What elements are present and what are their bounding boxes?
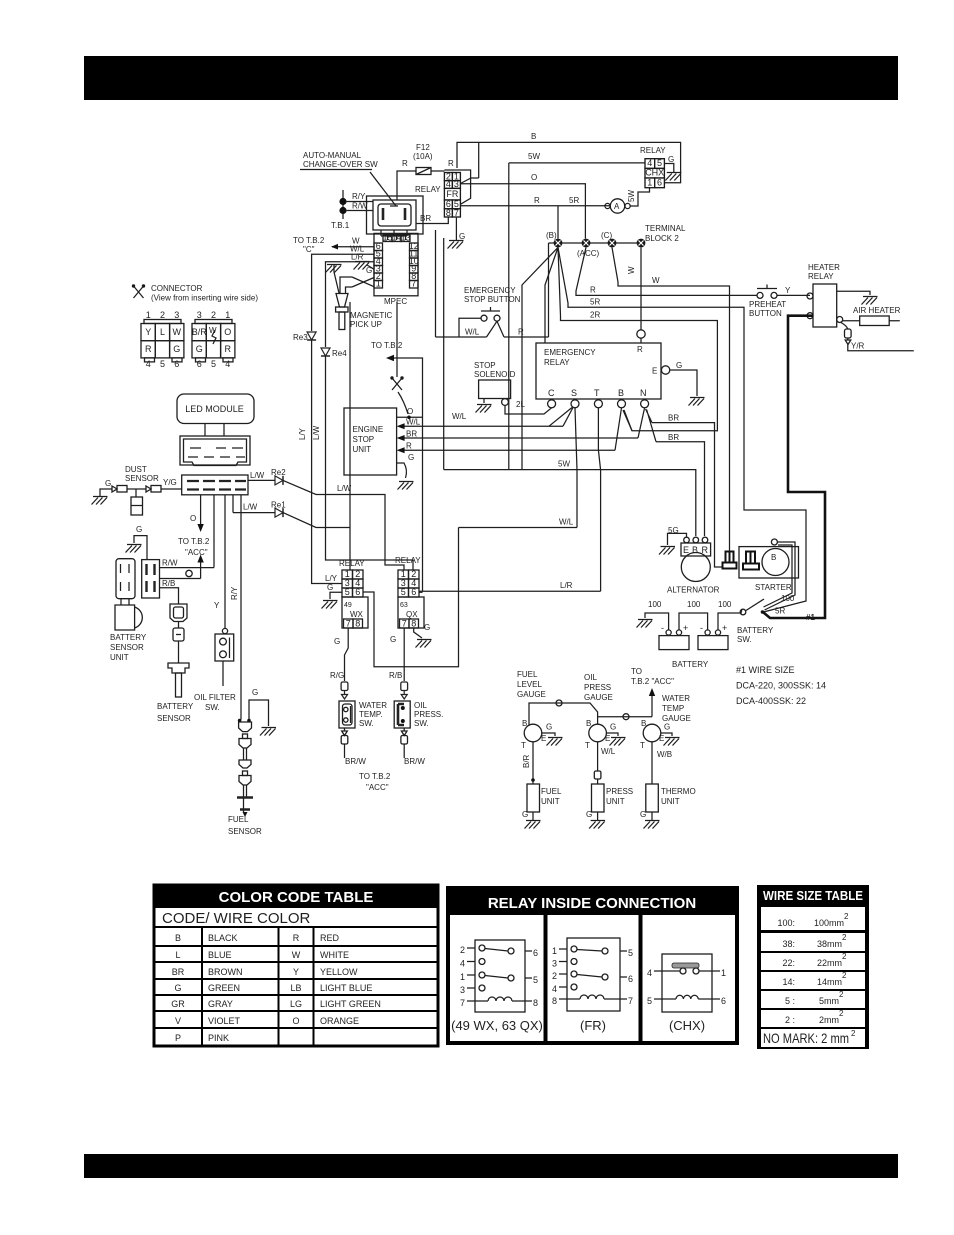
svg-text:5mm: 5mm [819,996,839,1006]
wire R/Y R/W to switch [347,202,373,211]
svg-text:-: - [661,623,664,633]
wire S fan-out [549,408,577,528]
svg-text:BATTERY: BATTERY [737,626,774,635]
svg-text:UNIT: UNIT [606,797,625,806]
wire from change-over switch down [436,230,444,470]
svg-text:Y: Y [214,601,220,610]
relay table frame [446,886,739,1045]
battery jumper [679,613,708,630]
svg-text:#1: #1 [806,613,815,622]
svg-text:RELAY: RELAY [544,358,570,367]
svg-text:BLACK: BLACK [208,933,238,943]
svg-text:FR: FR [446,189,458,199]
svg-text:LIGHT GREEN: LIGHT GREEN [320,999,381,1009]
svg-text:B: B [586,719,591,728]
svg-text:R/Y: R/Y [352,192,366,201]
svg-text:G: G [586,810,592,819]
svg-text:4: 4 [146,359,151,369]
svg-text:BR: BR [406,430,417,439]
svg-text:WATER: WATER [662,694,690,703]
svg-text:BATTERY: BATTERY [157,702,194,711]
svg-text:CHANGE-OVER SW: CHANGE-OVER SW [303,160,378,169]
svg-text:BR: BR [668,433,679,442]
svg-text:DCA-400SSK: 22: DCA-400SSK: 22 [736,696,806,706]
svg-text:2: 2 [842,933,847,942]
svg-text:O: O [531,173,537,182]
svg-text:8: 8 [355,619,360,629]
wire 5R from B node [558,247,806,612]
wire heater relay to ground [837,291,870,295]
svg-text:"ACC": "ACC" [185,548,208,557]
svg-text:GREEN: GREEN [208,983,240,993]
svg-text:(CHX): (CHX) [669,1018,705,1033]
svg-text:R: R [590,286,596,295]
svg-text:Y/G: Y/G [163,478,177,487]
svg-text:W/L: W/L [465,328,480,337]
svg-text:LG: LG [290,999,302,1009]
svg-text:L/Y: L/Y [298,427,307,440]
svg-text:PRESS: PRESS [606,787,633,796]
change-over switch [367,196,424,234]
svg-text:14:: 14: [782,977,795,987]
svg-text:3: 3 [454,179,459,189]
svg-text:2mm: 2mm [819,1015,839,1025]
svg-text:W: W [627,266,636,274]
emergency relay R terminal [637,330,645,338]
svg-text:4: 4 [460,959,465,969]
svg-text:V: V [175,1016,181,1026]
svg-text:5: 5 [345,587,350,597]
svg-text:5R: 5R [590,298,600,307]
svg-text:L/W: L/W [312,425,321,440]
wire heater relay to air heater [837,317,843,323]
svg-text:NO MARK: 2 mm: NO MARK: 2 mm [763,1030,849,1046]
svg-text:SENSOR: SENSOR [110,643,144,652]
header black bar [84,56,898,100]
svg-text:R/B: R/B [162,579,175,588]
svg-text:TO: TO [631,667,642,676]
svg-text:6: 6 [533,948,538,958]
svg-text:G: G [327,583,333,592]
svg-text:G: G [105,479,111,488]
svg-text:R: R [534,196,540,205]
svg-text:2L: 2L [516,400,525,409]
water temp switch [339,701,355,728]
svg-text:7: 7 [346,619,351,629]
svg-text:BR: BR [668,414,679,423]
svg-text:HEATER: HEATER [808,263,840,272]
lower connector strip [182,475,248,495]
svg-text:G: G [664,723,670,732]
mid plug [723,552,737,569]
svg-text:8: 8 [533,998,538,1008]
svg-text:R/W: R/W [352,202,368,211]
svg-text:GR: GR [171,999,185,1009]
svg-text:W: W [173,327,182,337]
svg-text:VIOLET: VIOLET [208,1016,241,1026]
svg-text:FUEL: FUEL [517,670,538,679]
svg-text:G: G [252,688,258,697]
svg-text:RELAY: RELAY [640,146,666,155]
svg-text:5W: 5W [627,190,636,202]
svg-text:OIL FILTER: OIL FILTER [194,693,236,702]
svg-text:G: G [334,637,340,646]
svg-text:2: 2 [851,1029,856,1038]
svg-text:STOP BUTTON: STOP BUTTON [464,295,521,304]
svg-text:2: 2 [842,971,847,980]
svg-text:O: O [190,514,196,523]
svg-text:2: 2 [460,945,465,955]
svg-text:R: R [448,159,454,168]
svg-text:PINK: PINK [208,1033,229,1043]
svg-text:BROWN: BROWN [208,967,243,977]
svg-text:5R: 5R [775,607,785,616]
svg-text:2: 2 [839,990,844,999]
svg-text:GRAY: GRAY [208,999,233,1009]
wire R/W riser [213,495,215,568]
svg-text:EMERGENCY: EMERGENCY [544,348,596,357]
svg-text:RELAY: RELAY [415,185,441,194]
svg-text:"ACC": "ACC" [366,783,389,792]
wire N fan-out to BR lines [638,408,656,442]
svg-text:1: 1 [460,972,465,982]
svg-text:+: + [683,623,688,633]
svg-text:Y: Y [293,967,299,977]
svg-text:SENSOR: SENSOR [228,827,262,836]
svg-text:Y: Y [145,327,151,337]
svg-text:3: 3 [460,985,465,995]
svg-text:W/B: W/B [657,750,672,759]
svg-text:W/L: W/L [452,412,467,421]
svg-text:P: P [175,1033,181,1043]
svg-text:L/W: L/W [243,503,258,512]
svg-text:BLOCK 2: BLOCK 2 [645,234,679,243]
svg-text:6: 6 [657,177,662,187]
svg-text:R: R [225,344,232,354]
emergency relay box [536,343,661,399]
svg-text:B: B [692,545,698,555]
svg-text:PICK UP: PICK UP [350,320,382,329]
svg-text:6: 6 [721,996,726,1006]
svg-text:ORANGE: ORANGE [320,1016,359,1026]
ground FR [448,241,464,249]
svg-text:UNIT: UNIT [661,797,680,806]
batteries [659,636,689,650]
svg-text:PREHEAT: PREHEAT [749,300,786,309]
wire fuse to switch [397,171,416,200]
battery sensor plug [168,663,189,673]
svg-text:CONNECTOR: CONNECTOR [151,284,203,293]
63QX pin6 stub to L/R [419,591,423,593]
svg-text:N: N [640,388,647,398]
svg-text:W/L: W/L [559,518,574,527]
svg-text:5W: 5W [528,152,540,161]
svg-text:38mm: 38mm [817,939,842,949]
svg-text:CODE/ WIRE COLOR: CODE/ WIRE COLOR [162,910,311,927]
wire B fan-out [615,408,632,451]
wire B/R to fuel unit [532,742,534,784]
press unit [592,784,605,812]
svg-text:R/B: R/B [389,671,402,680]
svg-text:RED: RED [320,933,340,943]
svg-text:5: 5 [657,158,662,168]
svg-text:E: E [541,734,546,743]
dust sensor body [135,489,137,497]
magnetic pickup crossed wires to pins 2,1 [340,277,374,293]
wire size table frame [757,885,869,1049]
svg-text:ENGINE: ENGINE [353,425,384,434]
connector legend right block [197,310,231,320]
svg-text:SW.: SW. [359,719,374,728]
svg-text:L/W: L/W [250,471,265,480]
svg-text:LB: LB [290,983,301,993]
connector legend left block [146,310,180,320]
svg-text:RELAY: RELAY [395,556,421,565]
svg-text:TO T.B.2: TO T.B.2 [178,537,210,546]
svg-text:22mm: 22mm [817,958,842,968]
svg-text:(View from inserting wire side: (View from inserting wire side) [151,294,258,303]
svg-text:1: 1 [225,310,230,320]
T.B.1 terminals [342,190,344,219]
magnetic pickup [336,294,348,308]
svg-text:4: 4 [647,968,652,978]
battery switch [740,609,746,615]
relay CHX inside diagram [647,954,726,1033]
svg-text:G: G [640,810,646,819]
svg-text:E: E [683,545,689,555]
svg-text:PRESS: PRESS [584,683,611,692]
svg-text:B: B [771,553,776,562]
svg-text:(C): (C) [601,231,612,240]
svg-text:4: 4 [552,984,557,994]
alternator [684,537,690,543]
svg-text:O: O [224,327,231,337]
svg-text:7: 7 [460,998,465,1008]
svg-text:8: 8 [411,619,416,629]
wire FR pin7 to ground [455,217,457,240]
svg-text:R: R [637,345,643,354]
svg-text:8: 8 [552,996,557,1006]
svg-text:YELLOW: YELLOW [320,967,358,977]
wire R/Y riser [240,495,242,720]
wire into 49WX pin1 [349,302,351,570]
svg-text:G: G [424,623,430,632]
svg-text:+: + [722,623,727,633]
svg-text:RELAY: RELAY [339,559,365,568]
svg-text:TEMP.: TEMP. [359,710,382,719]
svg-text:100mm: 100mm [814,918,844,928]
svg-text:L: L [175,950,180,960]
svg-text:3: 3 [197,310,202,320]
svg-text:-: - [700,623,703,633]
svg-text:S: S [571,388,577,398]
wire 5W vertical from top [508,163,510,470]
wire bold #1 from heater relay to battery switch [764,316,826,618]
svg-text:T: T [594,388,600,398]
svg-text:F12: F12 [416,143,430,152]
svg-text:W/L: W/L [601,747,616,756]
svg-text:T.B.2 "ACC": T.B.2 "ACC" [631,677,674,686]
svg-text:SW.: SW. [414,719,429,728]
svg-text:B: B [641,719,646,728]
svg-text:100: 100 [648,600,662,609]
battery ground [645,613,669,630]
svg-text:L/R: L/R [560,581,573,590]
fuel unit [527,784,540,812]
svg-text:BR: BR [172,967,185,977]
svg-text:TO T.B.2: TO T.B.2 [371,341,403,350]
svg-text:7: 7 [402,619,407,629]
svg-text:L/R: L/R [351,253,364,262]
svg-text:E: E [652,367,657,376]
wire T down to LR line [598,408,600,592]
connector symbol [132,284,145,298]
wire from B node down to 5W line [522,247,558,469]
relay 49WX/63QX inside diagram [451,940,543,1033]
svg-text:OIL: OIL [584,673,597,682]
wire fuse R to relay FR top and pin 5 [431,170,471,204]
svg-text:UNIT: UNIT [541,797,560,806]
svg-text:100: 100 [718,600,732,609]
ammeter A [605,203,610,208]
svg-text:G: G [196,344,203,354]
svg-text:B: B [531,132,536,141]
wire W from C node [612,247,730,551]
svg-text:R: R [402,159,408,168]
color code table header [154,885,438,908]
svg-text:Re1: Re1 [271,501,286,510]
LED module [177,394,254,424]
svg-text:Y/R: Y/R [851,342,865,351]
MPEC box [374,233,418,295]
svg-text:100: 100 [687,600,701,609]
svg-text:6: 6 [411,587,416,597]
svg-text:G: G [136,525,142,534]
svg-text:C: C [548,388,555,398]
svg-text:1: 1 [146,310,151,320]
svg-text:WHITE: WHITE [320,950,349,960]
svg-text:B/R: B/R [522,754,531,768]
svg-text:(10A): (10A) [413,152,433,161]
svg-text:3: 3 [174,310,179,320]
svg-text:UNIT: UNIT [353,445,372,454]
thermo unit [646,784,659,812]
LED module connector [180,436,250,465]
color code table rows [171,933,381,1043]
svg-text:7: 7 [454,208,459,218]
svg-text:G: G [390,635,396,644]
svg-text:7: 7 [628,996,633,1006]
svg-text:G: G [676,361,682,370]
svg-text:UNIT: UNIT [110,653,129,662]
svg-text:TO T.B.2: TO T.B.2 [359,772,391,781]
svg-text:5: 5 [647,996,652,1006]
svg-text:R: R [406,442,412,451]
svg-text:5: 5 [211,359,216,369]
wire W/L to press unit [597,742,599,771]
svg-text:R/G: R/G [330,671,344,680]
svg-text:5R: 5R [569,196,579,205]
svg-text:LIGHT BLUE: LIGHT BLUE [320,983,372,993]
svg-text:PRESS.: PRESS. [414,710,443,719]
wire branch to relay 49WX pin6 loop [363,528,459,667]
svg-text:6: 6 [355,587,360,597]
emergency relay bottom terminals C S T B N [548,388,647,398]
svg-text:THERMO: THERMO [661,787,696,796]
svg-text:5: 5 [160,359,165,369]
svg-text:BATTERY: BATTERY [110,633,147,642]
svg-text:Y: Y [785,286,791,295]
svg-text:MPEC: MPEC [384,297,407,306]
svg-text:8: 8 [446,208,451,218]
svg-text:R: R [293,933,300,943]
svg-text:FUEL: FUEL [541,787,562,796]
svg-text:2: 2 [844,912,849,921]
ground mpec left [326,265,342,273]
svg-text:2 :: 2 : [785,1015,795,1025]
svg-text:2: 2 [842,952,847,961]
svg-text:STARTER: STARTER [755,583,792,592]
wire from B node to emergency relay corner [545,247,558,343]
svg-text:Re3: Re3 [293,333,308,342]
svg-text:BATTERY: BATTERY [672,660,709,669]
footer black bar [84,1154,898,1178]
svg-text:5W: 5W [558,460,570,469]
svg-text:O: O [292,1016,299,1026]
battery to switch [718,609,742,630]
battery sensor inline connectors [170,604,187,622]
svg-text:T: T [521,741,526,750]
svg-text:R: R [145,344,152,354]
svg-text:Re4: Re4 [332,349,347,358]
svg-text:GAUGE: GAUGE [584,693,613,702]
svg-text:COLOR CODE TABLE: COLOR CODE TABLE [219,889,374,906]
svg-text:BR/W: BR/W [345,757,366,766]
svg-text:6: 6 [197,359,202,369]
svg-text:G: G [174,983,181,993]
battery sensor connector [142,560,160,598]
color code table frame [154,885,438,1046]
svg-text:E: E [659,734,664,743]
svg-text:T.B.1: T.B.1 [331,221,350,230]
svg-text:4: 4 [225,359,230,369]
wire junction B node to R line [557,206,559,239]
svg-text:5: 5 [628,948,633,958]
svg-text:E: E [605,734,610,743]
wire A to CHX pin1 [630,188,649,206]
svg-text:6: 6 [174,359,179,369]
svg-text:AIR HEATER: AIR HEATER [853,306,901,315]
svg-text:O: O [407,407,413,416]
svg-text:5: 5 [401,587,406,597]
svg-text:STOP: STOP [353,435,375,444]
svg-text:GAUGE: GAUGE [517,690,546,699]
svg-text:R/Y: R/Y [230,586,239,600]
svg-text:B/R: B/R [192,327,208,337]
svg-text:(FR): (FR) [580,1018,606,1033]
svg-text:"C": "C" [303,245,315,254]
svg-text:A: A [614,202,620,211]
svg-text:R: R [518,328,524,337]
svg-text:Re2: Re2 [271,468,286,477]
wire emergency stop R up to TB2 (B) [548,243,550,337]
svg-text:G: G [459,232,465,241]
svg-text:W: W [652,276,660,285]
svg-text:2: 2 [839,1009,844,1018]
wire 2R from B node [558,247,717,430]
svg-text:T: T [640,741,645,750]
oil press switch [394,701,410,728]
